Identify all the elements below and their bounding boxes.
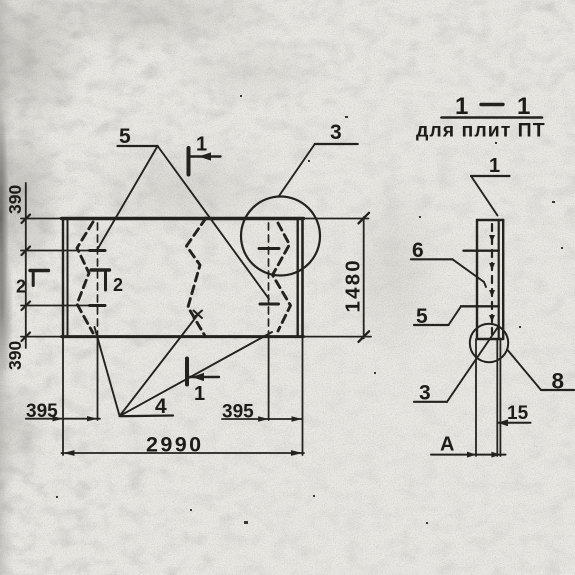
- section leader 8: [508, 351, 574, 391]
- dimension line 395 right: [222, 416, 302, 421]
- leader label 5 plan: [97, 146, 269, 299]
- plate top edge: [21, 218, 369, 220]
- svg-text:для плит ПТ: для плит ПТ: [416, 120, 546, 142]
- tick at lower row: [22, 302, 31, 311]
- plate right edge (double line): [298, 219, 303, 337]
- svg-text:3: 3: [419, 382, 431, 405]
- tick at upper row: [22, 247, 31, 256]
- section leader 1: [471, 176, 510, 216]
- svg-text:5: 5: [119, 125, 131, 148]
- svg-text:395: 395: [26, 401, 58, 422]
- anchor cross right-top: [259, 247, 279, 250]
- svg-text:1: 1: [517, 93, 530, 120]
- section title dash: [481, 103, 503, 106]
- svg-text:395: 395: [222, 402, 254, 423]
- section extension right double: [497, 339, 500, 456]
- section mark 2 left: [30, 271, 49, 286]
- section leader 5: [414, 306, 461, 325]
- extension line from plate right corner down: [302, 337, 304, 455]
- dimension line 1480: [359, 213, 370, 342]
- left anchor axis dash line: [97, 223, 99, 335]
- svg-text:1: 1: [194, 383, 205, 405]
- zigzag anchor strand center: [187, 218, 207, 336]
- svg-text:2: 2: [113, 275, 123, 295]
- detail circle on plan: [241, 197, 320, 276]
- dust specks: [56, 95, 563, 524]
- section anchor bar lower: [461, 305, 499, 307]
- svg-text:A: A: [440, 434, 454, 456]
- section extension left: [475, 339, 477, 456]
- svg-text:15: 15: [507, 403, 529, 424]
- extension line from left axis down: [97, 337, 99, 420]
- svg-text:2: 2: [16, 277, 26, 297]
- zigzag anchor strand right: [273, 223, 291, 331]
- dimension A line: [431, 452, 506, 458]
- section leader 6: [411, 259, 486, 287]
- extension line from right axis down: [268, 337, 270, 420]
- right anchor axis dash line: [268, 223, 270, 335]
- svg-text:6: 6: [412, 239, 424, 262]
- anchor cross left-top: [90, 249, 106, 252]
- dimension line 395 left: [26, 416, 100, 421]
- svg-text:1480: 1480: [342, 258, 365, 312]
- tick at bottom edge: [22, 333, 31, 342]
- section leader 3: [414, 326, 499, 402]
- leader label 3 plan: [279, 144, 358, 197]
- anchor cross right-bottom: [260, 303, 279, 306]
- svg-text:5: 5: [416, 305, 428, 328]
- section anchor bar upper: [464, 249, 499, 251]
- anchor axis row line lower: [21, 305, 104, 307]
- plate bottom edge: [21, 336, 371, 338]
- svg-text:390: 390: [5, 341, 25, 370]
- svg-text:8: 8: [552, 369, 565, 394]
- zigzag anchor strand left: [77, 222, 93, 333]
- svg-text:4: 4: [155, 395, 167, 418]
- section title underline: [442, 116, 543, 119]
- extension line from plate left corner down: [62, 337, 64, 455]
- svg-text:3: 3: [330, 121, 342, 144]
- tick at top edge: [22, 215, 31, 224]
- anchor axis row line upper: [21, 250, 104, 252]
- svg-text:1: 1: [455, 93, 468, 120]
- left dimension chain vertical line: [25, 183, 27, 348]
- section plate outline: [477, 220, 503, 339]
- svg-text:2990: 2990: [146, 433, 203, 457]
- svg-text:1: 1: [196, 134, 207, 156]
- svg-text:1: 1: [489, 155, 500, 177]
- svg-text:390: 390: [5, 185, 25, 214]
- section mark 1 bottom: [187, 359, 219, 385]
- anchor cross left-bottom: [90, 304, 106, 307]
- x mark on center strand: [194, 311, 203, 319]
- dimension 15: [498, 419, 531, 426]
- leader label 4 plan: [95, 315, 273, 417]
- section mark 2 right: [91, 270, 110, 290]
- dimension line 2990: [62, 450, 305, 456]
- plate left edge (double line): [63, 219, 68, 337]
- section mark 1 top: [189, 148, 221, 175]
- section detail circle: [470, 324, 508, 362]
- section anchor dash line: [489, 224, 495, 334]
